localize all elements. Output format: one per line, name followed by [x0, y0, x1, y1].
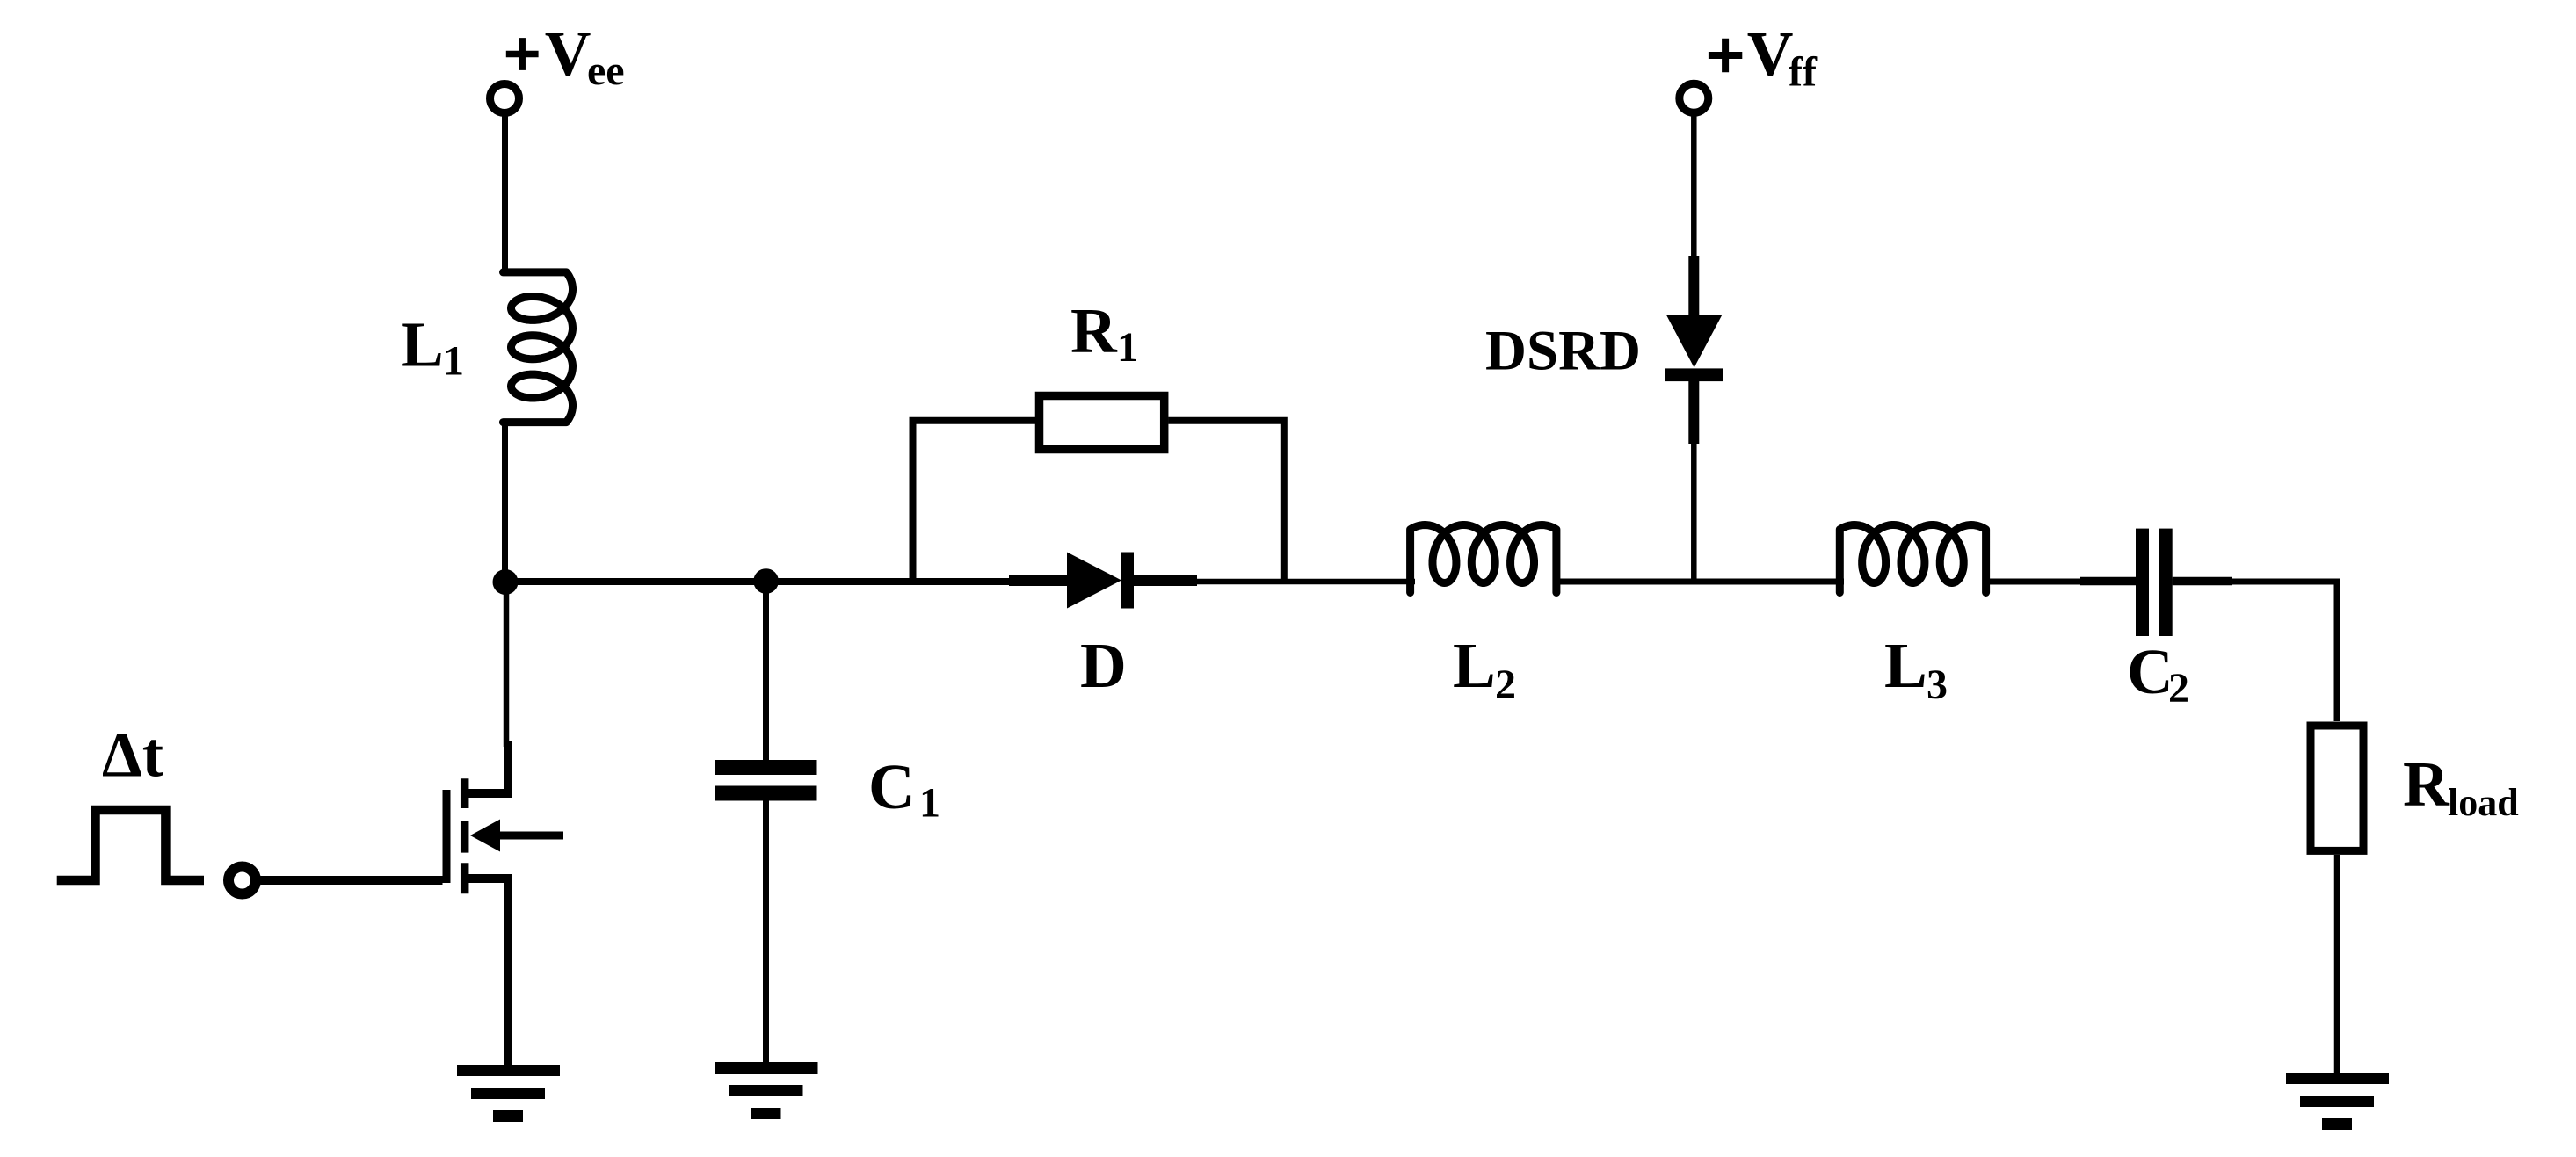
- svg-text:1: 1: [1117, 324, 1138, 371]
- wire R1 bypass right: [1168, 421, 1283, 584]
- wire diode to L2: [1197, 579, 1415, 585]
- svg-text:D: D: [1080, 630, 1127, 701]
- svg-text:Δt: Δt: [102, 720, 163, 791]
- wire C1 to ground: [763, 801, 769, 1063]
- ground (Rload): [2286, 1073, 2389, 1130]
- wire gate terminal to gate: [261, 876, 443, 885]
- svg-text:load: load: [2448, 781, 2519, 824]
- transistor Q1 (MOSFET): [446, 741, 563, 1065]
- wire L3 to C2: [1983, 579, 2136, 585]
- wire Vff to DSRD: [1691, 112, 1697, 264]
- svg-text:DSRD: DSRD: [1485, 320, 1641, 383]
- ground (C1): [715, 1062, 818, 1119]
- svg-text:ee: ee: [587, 47, 625, 94]
- wire L1 to node A: [502, 419, 508, 582]
- inductor L1: [504, 272, 573, 423]
- wire node A to MOSFET drain: [504, 582, 510, 747]
- inductor L3: [1839, 525, 1985, 593]
- ground (MOSFET source): [457, 1065, 560, 1122]
- node B: [753, 568, 779, 594]
- wire DSRD to main line: [1691, 444, 1697, 583]
- capacitor C1: [715, 760, 817, 801]
- svg-text:1: 1: [919, 780, 940, 827]
- svg-text:C: C: [2127, 636, 2173, 707]
- svg-text:2: 2: [1495, 662, 1516, 708]
- svg-text:ff: ff: [1789, 48, 1818, 95]
- inductor L2: [1411, 525, 1556, 593]
- wire Vee to L1: [502, 112, 508, 275]
- svg-text:R: R: [2403, 748, 2450, 820]
- resistor R1: [1040, 396, 1165, 450]
- wire node B to C1: [763, 582, 769, 760]
- label +Vff: [1709, 39, 1742, 72]
- wire main line node B to diode D: [766, 578, 1020, 585]
- svg-text:R: R: [1070, 295, 1118, 366]
- wire L2 to L3 (DSRD junction): [1553, 579, 1844, 585]
- wire main line node A to node B: [505, 578, 766, 585]
- svg-text:V: V: [1747, 18, 1794, 90]
- lead C2 left: [2080, 577, 2136, 586]
- svg-text:L: L: [1453, 630, 1496, 701]
- svg-text:L: L: [1884, 630, 1927, 701]
- svg-text:1: 1: [443, 338, 464, 385]
- diode D: [1009, 553, 1197, 609]
- capacitor C2: [2136, 529, 2173, 636]
- gate input terminal: [229, 867, 256, 894]
- svg-text:3: 3: [1927, 662, 1948, 708]
- node A: [493, 569, 519, 595]
- svg-text:C: C: [868, 751, 915, 822]
- resistor Rload: [2311, 726, 2363, 850]
- wire R1 bypass left: [913, 421, 1036, 584]
- terminal +Vee: [490, 84, 519, 113]
- pulse symbol: [57, 810, 204, 880]
- label +Vee: [506, 38, 539, 70]
- wire Rload to ground: [2334, 855, 2340, 1073]
- svg-text:V: V: [545, 18, 591, 90]
- svg-text:2: 2: [2168, 665, 2189, 712]
- diode DSRD: [1665, 256, 1723, 444]
- wire C2 to corner to Rload: [2173, 577, 2232, 586]
- svg-text:L: L: [401, 309, 444, 380]
- terminal +Vff: [1680, 83, 1709, 112]
